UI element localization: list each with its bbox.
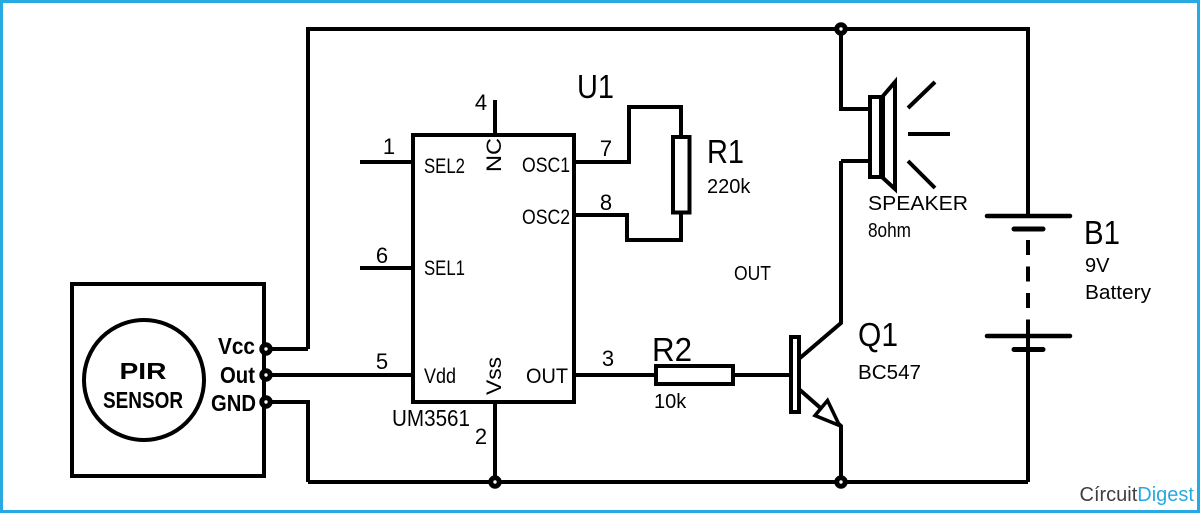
junction dot emitter/ground bbox=[837, 478, 845, 486]
terminal dot GND bbox=[262, 398, 270, 406]
svg-text:SENSOR: SENSOR bbox=[103, 387, 183, 413]
wire: pin 3 OUT to R2 bbox=[574, 373, 654, 377]
IC U1 UM3561 body bbox=[413, 135, 574, 402]
transistor Q1 base bar bbox=[791, 337, 799, 412]
svg-text:SPEAKER: SPEAKER bbox=[868, 193, 968, 215]
PIR sensor module box bbox=[72, 284, 264, 476]
speaker body bbox=[870, 97, 881, 177]
svg-text:OSC2: OSC2 bbox=[522, 206, 570, 229]
svg-text:1: 1 bbox=[383, 134, 395, 159]
wire: pin 4 stub NC bbox=[493, 100, 497, 135]
PIR lens circle bbox=[84, 320, 204, 440]
svg-text:PIR: PIR bbox=[120, 358, 167, 384]
svg-text:OUT: OUT bbox=[526, 365, 568, 388]
svg-text:B1: B1 bbox=[1084, 214, 1120, 251]
battery long plate (bottom cell) bbox=[987, 334, 1070, 339]
wire: PIR Out to Vdd pin 5 bbox=[266, 373, 413, 377]
svg-text:CírcuitDigest: CírcuitDigest bbox=[1080, 484, 1195, 506]
svg-text:R1: R1 bbox=[707, 133, 744, 170]
sound wave line bottom bbox=[908, 161, 935, 188]
wire: PIR GND down to bottom rail bbox=[266, 402, 308, 482]
wire: bottom ground rail bbox=[308, 480, 1028, 484]
svg-text:OSC1: OSC1 bbox=[522, 154, 570, 177]
svg-text:4: 4 bbox=[475, 90, 487, 115]
svg-text:U1: U1 bbox=[577, 68, 614, 105]
svg-text:Vcc: Vcc bbox=[218, 333, 255, 359]
battery dashed middle bbox=[1026, 240, 1030, 334]
wire: top supply rail from Vcc riser to battery + bbox=[308, 29, 1028, 349]
svg-text:SEL1: SEL1 bbox=[424, 257, 465, 280]
wire: PIR Vcc to riser bbox=[266, 347, 308, 351]
svg-text:5: 5 bbox=[376, 349, 388, 374]
svg-text:UM3561: UM3561 bbox=[392, 405, 470, 431]
svg-text:SEL2: SEL2 bbox=[424, 155, 465, 178]
battery short plate (top cell) bbox=[1014, 227, 1043, 232]
speaker cone bbox=[883, 82, 895, 189]
svg-text:9V: 9V bbox=[1085, 255, 1110, 277]
wire: Q1 collector up to speaker bbox=[800, 161, 841, 358]
battery short plate (bottom cell) bbox=[1014, 347, 1043, 352]
terminal dot Out bbox=[262, 371, 270, 379]
svg-text:8: 8 bbox=[600, 190, 612, 215]
junction dot speaker/supply rail bbox=[837, 25, 845, 33]
wire: pin 1 stub SEL2 bbox=[360, 160, 413, 164]
wire: pin 2 stub Vss to ground rail bbox=[493, 402, 497, 482]
sound wave line top bbox=[908, 82, 935, 108]
wire: pin 7 OSC1 to R1 top bbox=[574, 107, 681, 162]
wire: speaker bottom terminal bbox=[841, 159, 868, 163]
svg-text:Out: Out bbox=[220, 362, 255, 388]
wire: Q1 emitter down to ground rail bbox=[800, 390, 841, 482]
svg-text:OUT: OUT bbox=[734, 263, 771, 285]
svg-text:R2: R2 bbox=[652, 331, 692, 368]
resistor R2 10k body bbox=[656, 366, 733, 384]
svg-text:6: 6 bbox=[376, 243, 388, 268]
resistor R1 220k body bbox=[673, 137, 690, 213]
svg-text:BC547: BC547 bbox=[858, 362, 921, 384]
wire: pin 6 stub SEL1 bbox=[360, 266, 413, 270]
svg-text:Vdd: Vdd bbox=[424, 365, 456, 388]
battery B1 plate + long (top cell) bbox=[987, 214, 1070, 219]
wire: battery - to bottom rail bbox=[1026, 352, 1030, 482]
svg-text:Battery: Battery bbox=[1085, 282, 1151, 304]
svg-text:Vss: Vss bbox=[483, 357, 506, 395]
svg-text:7: 7 bbox=[600, 136, 612, 161]
wire: R2 to Q1 base bbox=[735, 373, 789, 377]
svg-text:Q1: Q1 bbox=[858, 316, 898, 353]
svg-text:3: 3 bbox=[602, 346, 614, 371]
svg-text:2: 2 bbox=[475, 424, 487, 449]
wire: speaker top terminal to supply rail bbox=[841, 29, 868, 109]
sound wave line middle bbox=[908, 132, 950, 136]
svg-text:NC: NC bbox=[483, 138, 506, 172]
svg-text:220k: 220k bbox=[707, 176, 751, 198]
svg-text:GND: GND bbox=[211, 390, 256, 416]
terminal dot Vcc bbox=[262, 345, 270, 353]
junction dot Vss/ground bbox=[491, 478, 499, 486]
svg-text:8ohm: 8ohm bbox=[868, 220, 911, 242]
wire: pin 8 OSC2 to R1 bottom bbox=[574, 212, 681, 240]
svg-text:10k: 10k bbox=[654, 391, 687, 413]
emitter arrowhead bbox=[815, 401, 840, 426]
